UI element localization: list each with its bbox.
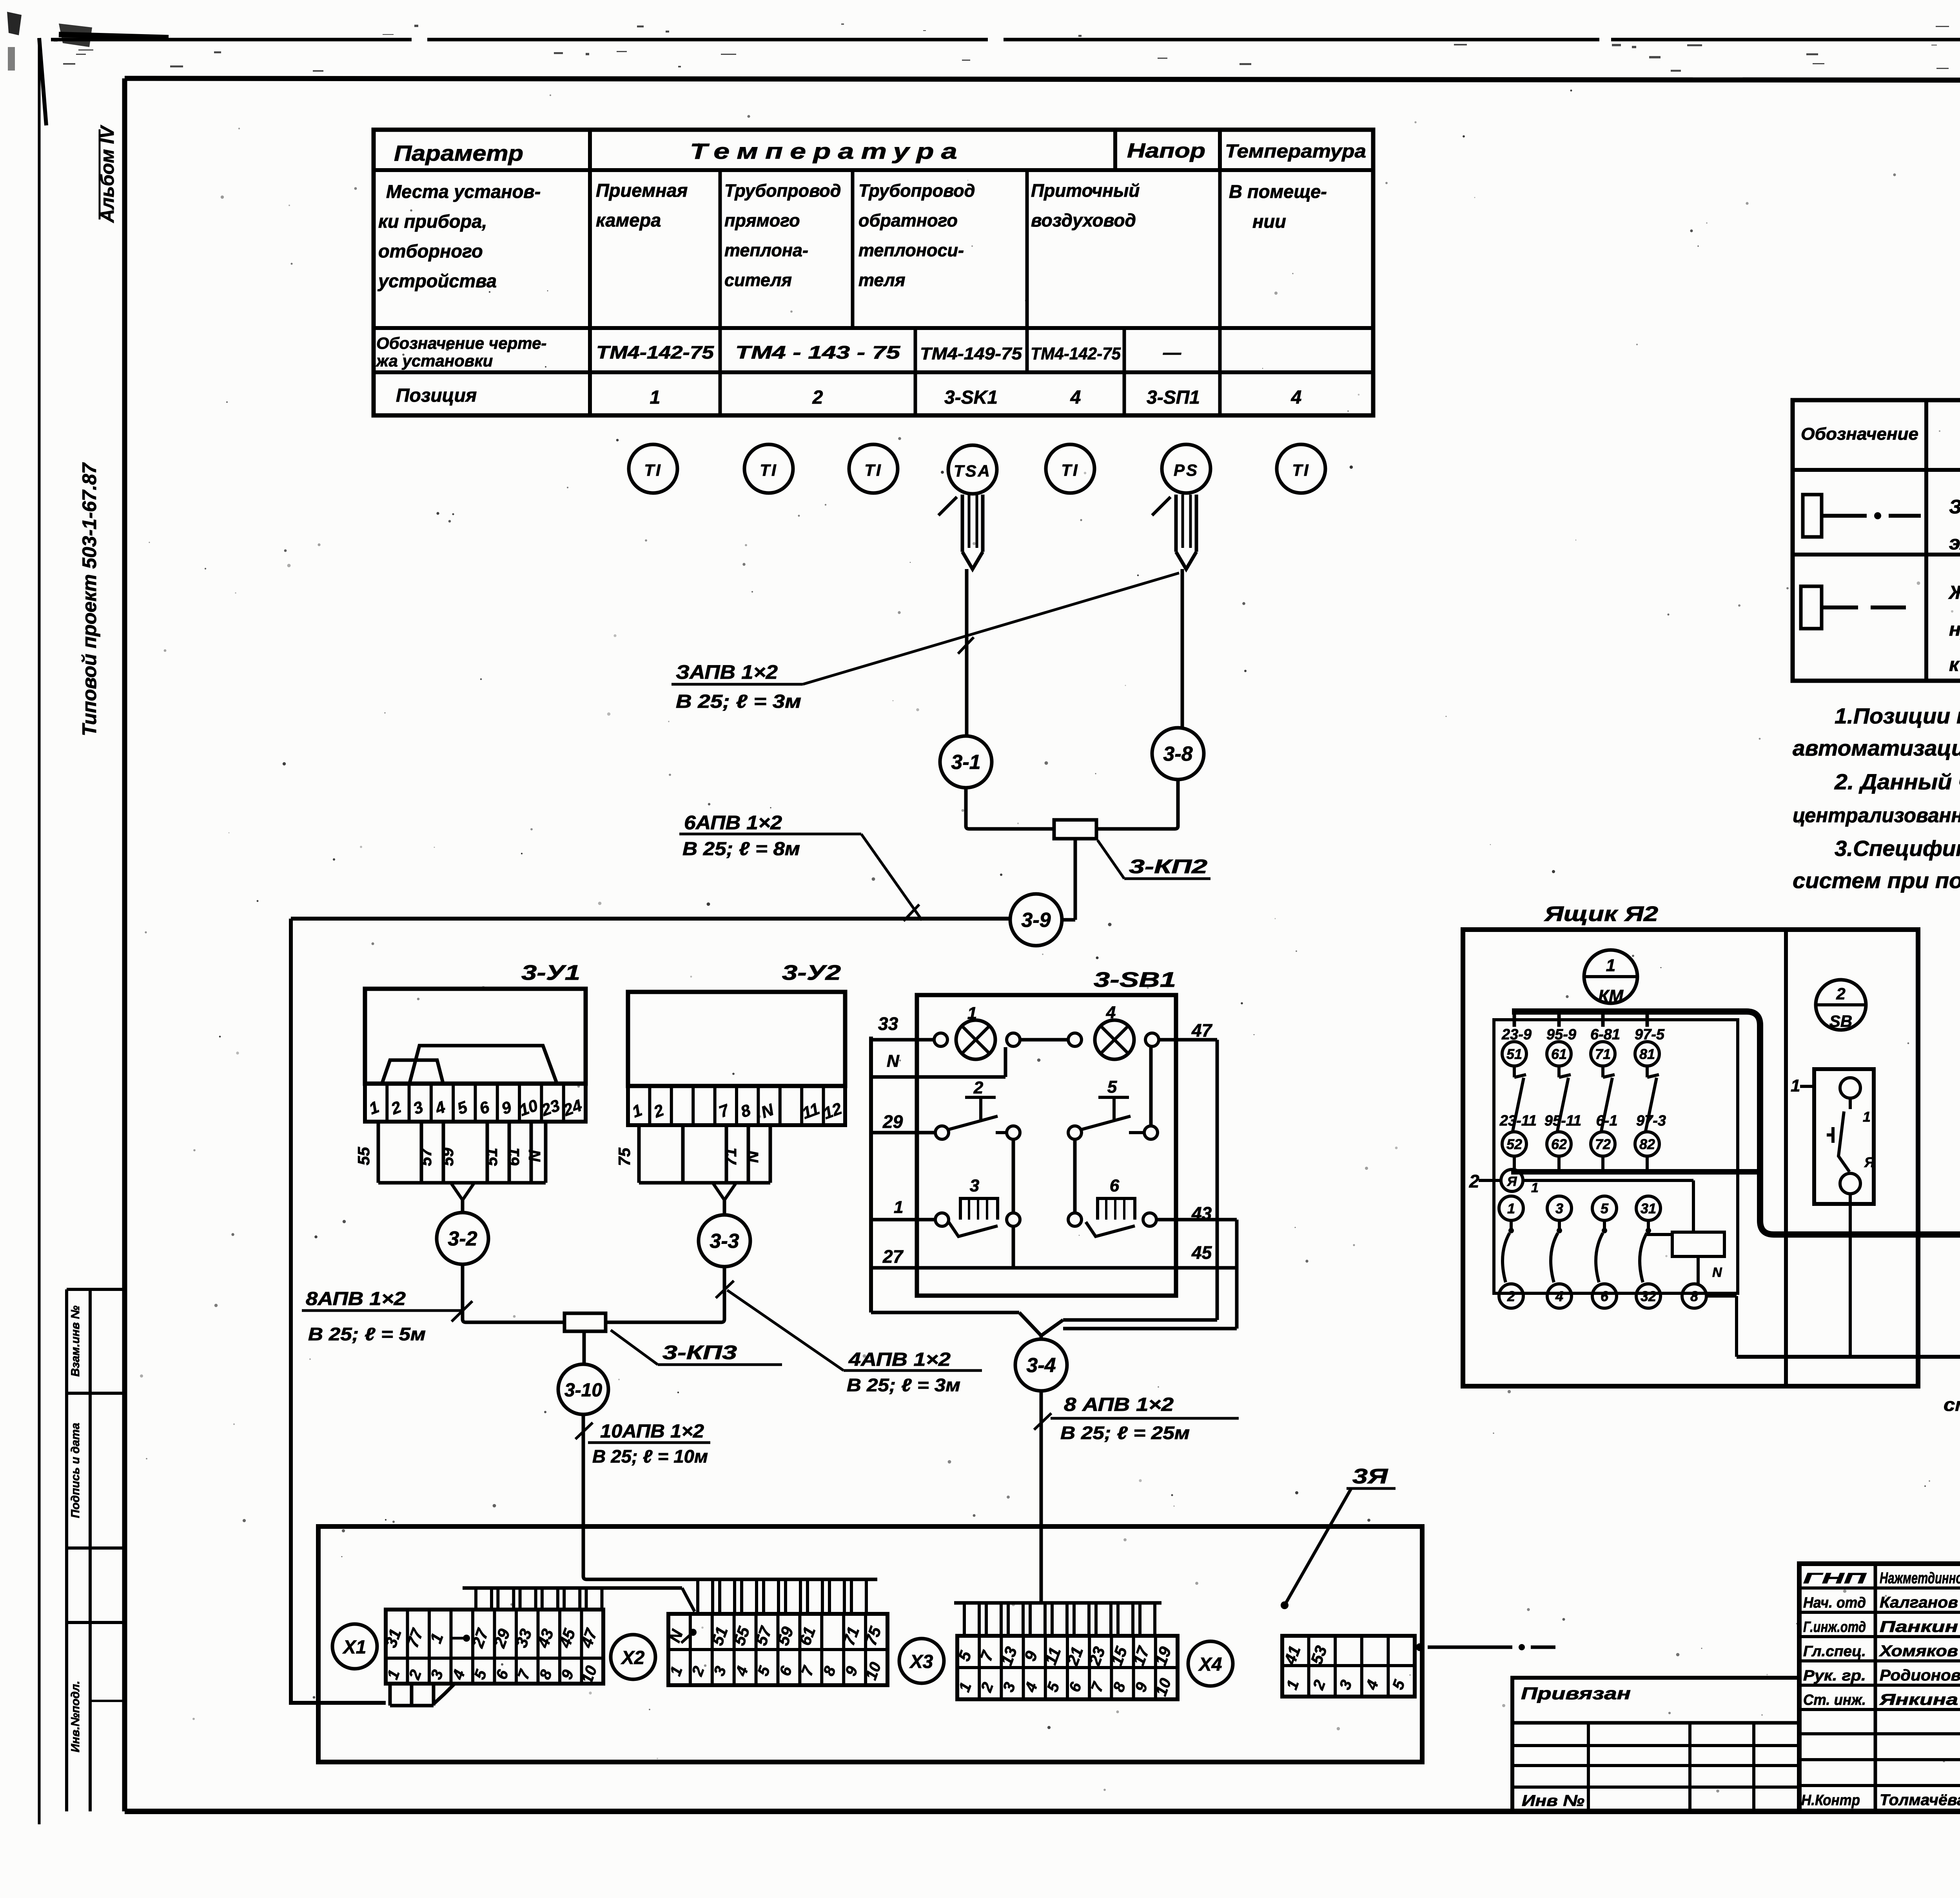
node 3-3	[699, 1215, 750, 1267]
svg-text:ТМ4-149-75: ТМ4-149-75	[920, 344, 1022, 363]
svg-text:1: 1	[1606, 956, 1615, 975]
contact 61-62	[1544, 1012, 1581, 1172]
contact 51-52	[1499, 1012, 1537, 1172]
actuator block 3-У2	[628, 961, 845, 1125]
svg-text:43: 43	[1191, 1203, 1212, 1224]
svg-text:ки прибора,: ки прибора,	[378, 211, 487, 232]
svg-text:57: 57	[416, 1147, 435, 1166]
svg-text:95-11: 95-11	[1544, 1113, 1581, 1129]
svg-text:жа установки: жа установки	[376, 352, 493, 370]
svg-text:3: 3	[970, 1176, 979, 1195]
wires converge to 3-4	[871, 1312, 1063, 1339]
junction box 3-КП3	[564, 1313, 606, 1331]
svg-text:8АПВ 1×2: 8АПВ 1×2	[306, 1289, 406, 1309]
svg-text:В 25; ℓ = 3м: В 25; ℓ = 3м	[847, 1375, 960, 1395]
actuator block 3-У1	[365, 961, 586, 1122]
svg-text:X4: X4	[1198, 1654, 1222, 1675]
svg-text:1: 1	[1791, 1076, 1800, 1095]
title block grid	[1799, 1564, 1960, 1811]
label 3-КП2	[1098, 840, 1210, 879]
label 3Я with leader	[1281, 1465, 1396, 1609]
svg-text:В 25; ℓ = 5м: В 25; ℓ = 5м	[308, 1324, 426, 1344]
svg-text:1.Позиции приборов и аппара: 1.Позиции приборов и аппаратуры указаны …	[1835, 703, 1960, 728]
svg-text:47: 47	[1191, 1020, 1213, 1041]
svg-text:Трубопровод: Трубопровод	[724, 181, 841, 201]
svg-text:Типовой проект 503-1-67.87: Типовой проект 503-1-67.87	[78, 462, 100, 736]
svg-text:75: 75	[615, 1148, 633, 1166]
svg-text:62: 62	[1551, 1136, 1567, 1152]
svg-text:3Я: 3Я	[1352, 1465, 1388, 1488]
svg-text:51: 51	[482, 1148, 501, 1166]
svg-text:8 АПВ 1×2: 8 АПВ 1×2	[1064, 1394, 1174, 1415]
svg-text:Родионова: Родионова	[1880, 1667, 1960, 1684]
notes paragraph	[1793, 703, 1960, 893]
svg-text:3-SП1: 3-SП1	[1147, 387, 1200, 408]
node 3-1	[940, 736, 992, 788]
raised terminals above X3	[964, 1603, 1155, 1636]
svg-text:32: 32	[1641, 1288, 1656, 1304]
terminal strip X2	[665, 1614, 887, 1685]
instrument TI-4	[1046, 444, 1094, 493]
wire and switch 6	[1068, 1176, 1237, 1236]
legend symbol protective conductor	[1803, 495, 1921, 537]
node 3-2	[437, 1213, 488, 1264]
wire long run from 3-9 to terminal box	[291, 919, 1010, 1703]
svg-text:ТМ4-142-75: ТМ4-142-75	[596, 342, 715, 363]
svg-text:Панкин: Панкин	[1880, 1618, 1958, 1635]
svg-text:TI: TI	[1061, 461, 1079, 479]
svg-text:3-4: 3-4	[1026, 1354, 1056, 1377]
svg-text:электрооборудования: электрооборудования	[1949, 532, 1960, 554]
svg-text:обратного: обратного	[858, 210, 958, 230]
box Ящик Я2 outline	[1463, 902, 1918, 1386]
terminal box 3Я outline	[318, 1526, 1422, 1762]
switch contact 1-2	[1499, 1196, 1523, 1308]
svg-text:Инв.№подл.: Инв.№подл.	[69, 1681, 82, 1753]
svg-text:4: 4	[1106, 1003, 1116, 1022]
terminal strip X1	[381, 1610, 603, 1706]
svg-text:PS: PS	[1174, 461, 1199, 479]
svg-text:4АПВ 1×2: 4АПВ 1×2	[848, 1349, 951, 1370]
svg-text:45: 45	[1191, 1242, 1212, 1263]
heavy bus from contacts to КСК-16	[1512, 984, 1960, 1235]
svg-text:Толмачёва: Толмачёва	[1880, 1791, 1960, 1809]
svg-text:1: 1	[1863, 1109, 1871, 1125]
svg-text:3-КП3: 3-КП3	[662, 1341, 737, 1363]
cable label ЗАПВ 1х2	[671, 573, 1179, 712]
svg-text:N: N	[525, 1149, 544, 1162]
svg-text:5: 5	[1107, 1077, 1117, 1097]
svg-text:3-2: 3-2	[448, 1227, 477, 1250]
svg-text:10АПВ 1×2: 10АПВ 1×2	[600, 1421, 704, 1442]
wire 3-2 to junction 3-КП3	[463, 1264, 564, 1322]
svg-text:2: 2	[1836, 984, 1845, 1003]
svg-text:3-SВ1: 3-SВ1	[1094, 968, 1176, 992]
svg-text:6-1: 6-1	[1596, 1113, 1618, 1129]
svg-text:Обозначение: Обозначение	[1801, 424, 1918, 444]
svg-text:Ящик Я2: Ящик Я2	[1544, 902, 1658, 926]
svg-text:Взам.инв №: Взам.инв №	[69, 1305, 82, 1376]
cable label 4АПВ 1х2	[716, 1281, 982, 1395]
node 3-9	[1010, 894, 1075, 946]
wire 33 and lamps chain	[871, 1013, 947, 1312]
svg-text:TI: TI	[1292, 461, 1310, 479]
svg-text:N: N	[887, 1051, 900, 1071]
svg-text:TI: TI	[760, 461, 777, 479]
svg-text:TI: TI	[644, 461, 662, 479]
legend symbol null protective conductor	[1801, 586, 1906, 629]
svg-text:33: 33	[878, 1013, 898, 1034]
title block names	[1801, 1570, 1960, 1809]
svg-text:ТМ4-142-75: ТМ4-142-75	[1031, 344, 1121, 363]
node 3-4	[1015, 1339, 1067, 1391]
wire 29 and switch 2	[871, 1078, 1020, 1213]
cable label 6АПВ 1х2	[679, 812, 922, 921]
svg-text:71: 71	[1595, 1046, 1611, 1062]
svg-text:Инв №: Инв №	[1522, 1792, 1584, 1809]
power supply line 220V	[1737, 1335, 1960, 1459]
heavy bottom bus	[1511, 1169, 1759, 1175]
wire N	[871, 1047, 1005, 1077]
svg-text:SВ: SВ	[1829, 1012, 1852, 1030]
svg-text:см.ТП-: см.ТП-	[1944, 1394, 1960, 1415]
svg-text:к корпусу электрооборудовани: к корпусу электрооборудования	[1949, 654, 1960, 675]
svg-text:автоматизации см. лист 2.: автоматизации см. лист 2.	[1793, 736, 1960, 760]
inner contact box	[1494, 1020, 1738, 1293]
instrument TI-2	[744, 444, 793, 493]
table row3 texts	[376, 334, 1181, 370]
svg-text:сителя: сителя	[724, 270, 792, 290]
button box in Я2	[1791, 1069, 1875, 1357]
svg-text:Обозначение черте-: Обозначение черте-	[376, 334, 546, 352]
sheet outer border top (rough scan line)	[39, 34, 1960, 125]
instrument TI-3	[849, 444, 898, 493]
wire 3-3 to junction 3-КП3	[606, 1267, 724, 1322]
legend text row2	[1948, 582, 1960, 675]
svg-text:8: 8	[1690, 1288, 1698, 1304]
svg-text:Позиция: Позиция	[396, 385, 477, 406]
svg-text:2. Данный чертеж выполнен д: 2. Данный чертеж выполнен для системы П3…	[1834, 769, 1960, 794]
switch contact 31-32	[1636, 1196, 1661, 1308]
svg-text:52: 52	[1506, 1136, 1522, 1152]
wire 47 from lamp4	[1063, 1020, 1217, 1320]
svg-text:Привязан: Привязан	[1521, 1684, 1631, 1703]
raised terminals above X2	[691, 1579, 877, 1614]
designation circle X1	[332, 1624, 377, 1669]
instrument TSA	[948, 445, 997, 494]
svg-text:3.Спецификацию на систему П: 3.Спецификацию на систему П3 см. лист 9;…	[1835, 836, 1960, 861]
svg-text:нии: нии	[1252, 211, 1286, 232]
wire 3-10 down into terminal box	[583, 1414, 691, 1579]
svg-text:ЗАПВ 1×2: ЗАПВ 1×2	[676, 661, 778, 683]
svg-text:Защитный проводник, присоединя: Защитный проводник, присоединяемый к кор…	[1949, 496, 1960, 518]
cable label 10АПВ 1х2	[575, 1421, 710, 1467]
sensor well below TSA	[938, 495, 983, 569]
svg-text:В 25; ℓ = 3м: В 25; ℓ = 3м	[676, 691, 801, 712]
left stamp cells	[67, 1289, 125, 1811]
svg-text:55: 55	[354, 1147, 373, 1165]
contact 81-82	[1635, 1012, 1666, 1172]
cable label 8АПВ 1х2 (25м)	[1034, 1394, 1239, 1443]
label 3-КП3	[611, 1330, 782, 1365]
designation circle X3	[899, 1639, 944, 1683]
svg-text:Приемная: Приемная	[596, 180, 688, 201]
svg-text:теплоноси-: теплоноси-	[858, 240, 964, 260]
lamp 4	[1095, 1003, 1134, 1059]
svg-text:3-1: 3-1	[951, 751, 980, 774]
node 3-10	[558, 1364, 608, 1414]
svg-text:31: 31	[1641, 1200, 1656, 1216]
svg-text:нулевого защитного проводник: нулевого защитного проводника и присоеди…	[1949, 619, 1960, 640]
svg-text:3-У1: 3-У1	[521, 961, 580, 984]
svg-text:В 25; ℓ = 10м: В 25; ℓ = 10м	[592, 1446, 708, 1467]
wire 3-8 to junction 3-KP2	[1096, 780, 1178, 829]
relay circle Я with feed 2	[1469, 1169, 1693, 1232]
svg-text:Температура: Температура	[690, 139, 964, 163]
svg-text:3-10: 3-10	[564, 1380, 602, 1401]
svg-text:2: 2	[1469, 1171, 1479, 1191]
svg-text:Нач. отд: Нач. отд	[1803, 1595, 1866, 1611]
svg-text:N: N	[743, 1150, 762, 1163]
terminal 8 circle	[1682, 1284, 1737, 1357]
switch contact 5-6	[1592, 1196, 1617, 1308]
svg-text:72: 72	[1595, 1136, 1611, 1152]
svg-text:камера: камера	[596, 210, 661, 230]
designation circle X4	[1188, 1641, 1233, 1686]
svg-text:Янкина: Янкина	[1879, 1691, 1958, 1708]
svg-text:61: 61	[504, 1148, 523, 1166]
relay coil	[1672, 1232, 1724, 1284]
wire to switch 5	[1068, 1046, 1158, 1213]
svg-text:TI: TI	[864, 461, 882, 479]
svg-text:Ст. инж.: Ст. инж.	[1803, 1692, 1866, 1708]
svg-text:TSA: TSA	[954, 462, 991, 480]
table row2 texts	[377, 180, 1327, 291]
wire 3-4 down into terminal box	[954, 1391, 1161, 1603]
wires below 3-У1 terminals	[354, 1122, 546, 1213]
svg-text:—: —	[1163, 342, 1181, 363]
svg-text:В помеще-: В помеще-	[1229, 181, 1327, 202]
svg-text:X3: X3	[909, 1651, 933, 1672]
svg-text:Приточный: Приточный	[1031, 180, 1140, 201]
node 3-8	[1152, 728, 1204, 780]
svg-text:В 25; ℓ = 25м: В 25; ℓ = 25м	[1060, 1423, 1190, 1443]
contact 71-72	[1590, 1012, 1620, 1172]
wire 31 to coil	[1648, 1220, 1672, 1235]
table header texts	[394, 139, 1366, 165]
legend header texts	[1801, 421, 1960, 444]
svg-text:59: 59	[438, 1148, 457, 1166]
binding table Привязан	[1512, 1678, 1799, 1811]
cable label 8АПВ 1х2 (5м)	[302, 1289, 472, 1344]
svg-text:централизованного отключения: централизованного отключения при пожаре …	[1793, 804, 1960, 827]
svg-text:81: 81	[1639, 1046, 1655, 1062]
contactor symbol 1/КМ	[1584, 950, 1637, 1006]
svg-text:82: 82	[1639, 1136, 1655, 1152]
switch block 3-SB1 box	[917, 968, 1176, 1296]
terminal strip X4	[1280, 1636, 1415, 1697]
svg-text:устройства: устройства	[377, 270, 497, 291]
corner scan smudge top-left	[7, 12, 92, 71]
terminal strip X3	[955, 1636, 1178, 1699]
instrument TI-1	[629, 444, 677, 493]
svg-text:6: 6	[1110, 1176, 1120, 1195]
svg-text:Калганов: Калганов	[1880, 1594, 1958, 1611]
svg-text:Я: Я	[1864, 1154, 1875, 1170]
svg-text:N: N	[1712, 1265, 1722, 1280]
svg-text:1: 1	[1507, 1200, 1515, 1216]
wire 3-1 to junction 3-KP2	[966, 788, 1054, 829]
svg-text:2: 2	[973, 1078, 984, 1097]
svg-text:3: 3	[1555, 1200, 1563, 1216]
svg-text:6АПВ 1×2: 6АПВ 1×2	[684, 812, 782, 834]
wire 27 bottom bus	[871, 1220, 1237, 1329]
sensor well below PS	[1152, 495, 1196, 569]
svg-text:ГНП: ГНП	[1803, 1570, 1866, 1587]
wire 1 and switch 3	[871, 1176, 1020, 1268]
svg-text:теплона-: теплона-	[724, 240, 808, 260]
svg-text:Напор: Напор	[1127, 140, 1205, 162]
svg-text:Хомяков: Хомяков	[1879, 1642, 1958, 1660]
svg-text:В 25; ℓ = 8м: В 25; ℓ = 8м	[682, 839, 800, 859]
svg-text:Н.Контр: Н.Контр	[1801, 1792, 1860, 1809]
svg-text:3-9: 3-9	[1021, 909, 1051, 932]
svg-text:Г.инж.отд: Г.инж.отд	[1803, 1619, 1866, 1635]
svg-text:1: 1	[967, 1004, 977, 1023]
button symbol 2/SB	[1816, 980, 1866, 1030]
svg-text:1: 1	[1531, 1180, 1539, 1195]
svg-text:систем при пожаре - лист: систем при пожаре - лист 14.	[1793, 868, 1960, 893]
svg-text:отборного: отборного	[378, 241, 483, 261]
switch contact 3-4	[1547, 1196, 1572, 1308]
svg-text:23-11: 23-11	[1499, 1113, 1537, 1129]
svg-text:Гл.спец.: Гл.спец.	[1803, 1643, 1866, 1660]
instrument TI-5	[1277, 444, 1325, 493]
legend text row1	[1949, 496, 1960, 554]
svg-text:воздуховод: воздуховод	[1031, 210, 1136, 230]
svg-text:3-У2: 3-У2	[782, 961, 841, 984]
svg-text:29: 29	[882, 1111, 903, 1132]
wire lamp1 to lamp4	[1007, 1033, 1082, 1046]
svg-text:Нажметдиннов: Нажметдиннов	[1880, 1570, 1960, 1587]
junction box 3-КП2	[1054, 820, 1096, 839]
raised terminals above X1	[463, 1588, 695, 1612]
legend table grid	[1793, 400, 1960, 681]
wires below 3-У2 terminals	[615, 1125, 770, 1215]
svg-text:1: 1	[650, 387, 661, 408]
svg-text:3-SK1: 3-SK1	[944, 387, 998, 408]
designation circle X2	[611, 1635, 655, 1679]
svg-text:КМ: КМ	[1598, 986, 1624, 1006]
parameters table grid	[374, 130, 1373, 415]
svg-text:Рук. гр.: Рук. гр.	[1803, 1668, 1866, 1684]
svg-text:Температура: Температура	[1225, 141, 1366, 162]
wire PS to 3-8	[1181, 569, 1184, 728]
svg-text:97-3: 97-3	[1636, 1113, 1666, 1129]
svg-text:4: 4	[1070, 387, 1081, 408]
svg-text:51: 51	[1506, 1046, 1522, 1062]
instrument PS	[1162, 444, 1210, 493]
table row4 position texts	[396, 385, 1301, 408]
wire 3-KP2 down to node 3-9	[1074, 839, 1077, 920]
svg-text:61: 61	[1551, 1046, 1567, 1062]
svg-text:27: 27	[882, 1246, 904, 1267]
svg-text:Я: Я	[1507, 1174, 1517, 1189]
svg-text:2: 2	[812, 387, 823, 408]
svg-text:3-3: 3-3	[710, 1230, 739, 1253]
svg-text:Подпись и дата: Подпись и дата	[69, 1423, 82, 1518]
svg-text:ТМ4 - 143 - 75: ТМ4 - 143 - 75	[735, 342, 901, 363]
wire 3-КП3 down to 3-10	[583, 1331, 586, 1365]
svg-text:3-КП2: 3-КП2	[1129, 856, 1207, 877]
svg-text:X1: X1	[342, 1637, 367, 1658]
svg-text:X2: X2	[621, 1648, 645, 1668]
svg-text:Жила кабеля или провода, ис: Жила кабеля или провода, используемая в …	[1948, 582, 1960, 603]
wire TSA to 3-1	[965, 569, 969, 736]
svg-text:2: 2	[1507, 1288, 1515, 1304]
svg-text:теля: теля	[858, 270, 906, 290]
svg-text:3-8: 3-8	[1163, 743, 1192, 765]
lamp 1	[956, 1004, 995, 1059]
margin text Альбом IV	[97, 125, 118, 223]
svg-text:Параметр: Параметр	[394, 141, 523, 165]
svg-text:1: 1	[894, 1198, 903, 1217]
svg-text:прямого: прямого	[724, 210, 800, 230]
sheet outer border left	[38, 38, 41, 1824]
svg-text:4: 4	[1555, 1288, 1563, 1304]
margin text Типовой проект 503-1-67.87	[78, 462, 100, 736]
svg-text:Трубопровод: Трубопровод	[858, 181, 975, 201]
svg-text:5: 5	[1601, 1200, 1609, 1216]
protective conductor dash-dot from 3Я box	[1416, 1643, 1555, 1651]
svg-text:4: 4	[1291, 387, 1302, 408]
svg-text:Места установ-: Места установ-	[386, 181, 541, 202]
svg-text:71: 71	[721, 1148, 740, 1166]
svg-text:6: 6	[1601, 1288, 1609, 1304]
